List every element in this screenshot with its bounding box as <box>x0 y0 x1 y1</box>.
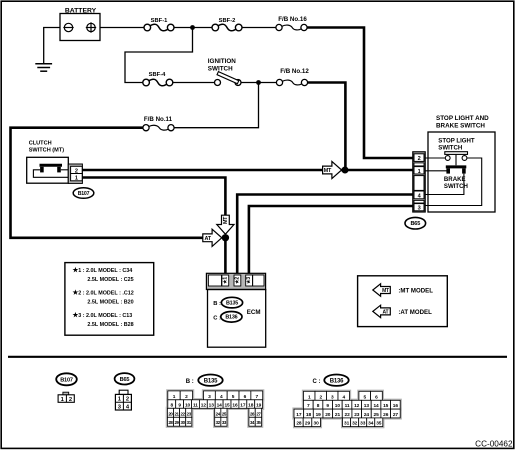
svg-text:SBF-4: SBF-4 <box>149 72 167 78</box>
svg-text:31: 31 <box>344 421 350 427</box>
svg-text:B135: B135 <box>226 301 238 307</box>
svg-text:24: 24 <box>364 412 370 418</box>
svg-text:9: 9 <box>326 403 329 409</box>
svg-text:2: 2 <box>418 156 421 162</box>
svg-text::AT MODEL: :AT MODEL <box>398 309 432 316</box>
svg-text:BRAKE SWITCH: BRAKE SWITCH <box>436 122 485 129</box>
svg-text:6: 6 <box>244 394 247 400</box>
svg-text:10: 10 <box>185 402 191 408</box>
svg-text:15: 15 <box>383 403 389 409</box>
svg-text:5: 5 <box>363 394 366 400</box>
svg-text:★1 : 2.0L MODEL : C34: ★1 : 2.0L MODEL : C34 <box>72 267 133 274</box>
svg-text:27: 27 <box>393 412 399 418</box>
svg-text:4: 4 <box>342 394 345 400</box>
svg-text:1: 1 <box>308 394 311 400</box>
svg-text:★2: ★2 <box>234 277 240 284</box>
svg-text:4: 4 <box>220 394 223 400</box>
svg-text:F/B No.16: F/B No.16 <box>278 16 307 23</box>
svg-text:AT: AT <box>383 309 389 315</box>
svg-text:3: 3 <box>331 394 334 400</box>
svg-text:8: 8 <box>170 402 173 408</box>
svg-text:22: 22 <box>345 412 351 418</box>
svg-text:CLUTCH: CLUTCH <box>29 140 52 146</box>
svg-text:F/B No.11: F/B No.11 <box>144 116 173 123</box>
svg-text:2: 2 <box>126 397 129 403</box>
svg-text:STOP LIGHT AND: STOP LIGHT AND <box>436 115 489 122</box>
svg-text:SBF-2: SBF-2 <box>219 18 236 24</box>
svg-text:26: 26 <box>383 412 389 418</box>
svg-text:ECM: ECM <box>247 309 261 316</box>
svg-text:7: 7 <box>255 394 258 400</box>
svg-text:16: 16 <box>232 402 238 408</box>
svg-text:2: 2 <box>319 394 322 400</box>
svg-text:MT: MT <box>223 216 229 224</box>
svg-text:B135: B135 <box>204 378 218 384</box>
svg-text:2.5L MODEL : B20: 2.5L MODEL : B20 <box>87 300 133 306</box>
svg-text:CC-00462: CC-00462 <box>475 440 513 449</box>
svg-text:11: 11 <box>345 403 350 409</box>
svg-text:F/B No.12: F/B No.12 <box>280 68 309 75</box>
svg-text:3: 3 <box>418 206 421 212</box>
svg-text:35: 35 <box>376 421 382 427</box>
svg-text:B107: B107 <box>78 191 90 197</box>
svg-text:3: 3 <box>208 394 211 400</box>
svg-text:2: 2 <box>185 394 188 400</box>
svg-text:9: 9 <box>178 402 181 408</box>
svg-text:10: 10 <box>335 403 341 409</box>
svg-text:IGNITION: IGNITION <box>208 58 236 65</box>
svg-text::MT MODEL: :MT MODEL <box>398 287 433 294</box>
svg-text:SWITCH: SWITCH <box>208 65 233 72</box>
svg-text:18: 18 <box>306 412 312 418</box>
svg-text:★3 : 2.0L MODEL : C13: ★3 : 2.0L MODEL : C13 <box>72 312 133 319</box>
svg-text:SWITCH: SWITCH <box>438 144 462 151</box>
svg-text:28: 28 <box>296 421 302 427</box>
svg-text:SWITCH (MT): SWITCH (MT) <box>29 147 65 153</box>
svg-text:B136: B136 <box>225 315 237 321</box>
svg-text:2.5L MODEL : B28: 2.5L MODEL : B28 <box>87 322 133 328</box>
svg-text:14: 14 <box>217 402 223 408</box>
svg-text:25: 25 <box>374 412 380 418</box>
svg-text:13: 13 <box>209 402 215 408</box>
svg-text:C :: C : <box>313 379 321 385</box>
svg-text:B65: B65 <box>410 221 420 227</box>
svg-text:B65: B65 <box>120 377 130 383</box>
svg-text:8: 8 <box>317 403 320 409</box>
svg-text:2.5L MODEL : C25: 2.5L MODEL : C25 <box>87 277 133 283</box>
svg-text:32: 32 <box>352 421 358 427</box>
svg-text:29: 29 <box>305 421 311 427</box>
svg-text:1: 1 <box>173 394 176 400</box>
svg-text:34: 34 <box>368 421 374 427</box>
svg-text:18: 18 <box>248 402 254 408</box>
svg-text:★3: ★3 <box>246 277 252 284</box>
svg-text:33: 33 <box>360 421 366 427</box>
svg-text:14: 14 <box>373 403 379 409</box>
svg-text:12: 12 <box>201 402 207 408</box>
svg-text:19: 19 <box>316 412 322 418</box>
svg-text:11: 11 <box>193 402 198 408</box>
svg-text:SBF-1: SBF-1 <box>151 18 169 24</box>
svg-text:15: 15 <box>224 402 230 408</box>
svg-text:6: 6 <box>375 394 378 400</box>
svg-text:B107: B107 <box>60 377 73 383</box>
svg-text:7: 7 <box>307 403 310 409</box>
svg-text:20: 20 <box>325 412 331 418</box>
svg-text:2: 2 <box>69 397 72 403</box>
svg-text:1: 1 <box>418 169 421 175</box>
svg-text:B136: B136 <box>330 378 344 384</box>
svg-text:17: 17 <box>240 402 246 408</box>
svg-text:STOP LIGHT: STOP LIGHT <box>438 137 475 144</box>
svg-text:5: 5 <box>232 394 235 400</box>
svg-text:1: 1 <box>75 176 78 182</box>
svg-text:B :: B : <box>213 301 221 307</box>
svg-text:★1: ★1 <box>222 277 228 284</box>
svg-text:AT: AT <box>205 236 212 242</box>
svg-text:17: 17 <box>296 412 302 418</box>
svg-text:21: 21 <box>335 412 341 418</box>
svg-text:C :: C : <box>213 315 221 321</box>
svg-text:MT: MT <box>324 168 332 174</box>
svg-text:MT: MT <box>382 288 389 294</box>
svg-text:23: 23 <box>354 412 360 418</box>
svg-text:13: 13 <box>364 403 370 409</box>
svg-text:12: 12 <box>354 403 360 409</box>
svg-text:16: 16 <box>393 403 399 409</box>
svg-text:B :: B : <box>186 379 194 385</box>
svg-text:19: 19 <box>256 402 262 408</box>
svg-text:★2 : 2.0L MODEL : .C12: ★2 : 2.0L MODEL : .C12 <box>72 290 134 297</box>
svg-text:30: 30 <box>314 421 320 427</box>
